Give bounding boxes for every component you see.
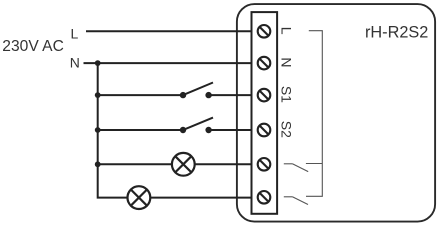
- relay contact K1: [284, 164, 308, 172]
- junction node S1: [95, 92, 101, 98]
- svg-text:N: N: [278, 57, 294, 67]
- wire S1 right segment: [209, 94, 259, 96]
- svg-text:N: N: [70, 54, 80, 70]
- svg-text:L: L: [71, 26, 79, 42]
- wire bus vertical N: [98, 63, 259, 198]
- terminal screw out2: [258, 191, 271, 204]
- svg-text:L: L: [278, 27, 294, 35]
- svg-text:S2: S2: [278, 121, 294, 138]
- wire lamp1: [98, 163, 259, 165]
- wire S1 left segment: [98, 94, 183, 96]
- terminal block: [252, 12, 278, 214]
- svg-text:230V AC: 230V AC: [2, 38, 64, 55]
- terminal screw S2: [258, 124, 271, 137]
- lamp E2: [127, 186, 150, 209]
- device body rH-R2S2: [237, 4, 435, 222]
- terminal screw out1: [258, 158, 271, 171]
- junction node N: [95, 60, 101, 66]
- relay contact K2: [284, 197, 308, 205]
- wire N: [84, 62, 260, 64]
- terminal screw L: [258, 25, 271, 38]
- junction node S2: [95, 127, 101, 133]
- switch S1: [180, 83, 213, 99]
- junction node lamp1: [95, 161, 101, 167]
- svg-text:S1: S1: [278, 86, 294, 103]
- svg-text:rH-R2S2: rH-R2S2: [365, 24, 428, 42]
- wire S2 left segment: [98, 129, 183, 131]
- wire S2 right segment: [209, 129, 259, 131]
- internal relay stub contact 1: [306, 163, 322, 165]
- terminal screw S1: [258, 89, 271, 102]
- lamp E1: [172, 153, 195, 176]
- internal relay common line from L: [306, 31, 322, 197]
- switch S2: [180, 118, 213, 134]
- wire L: [86, 30, 259, 32]
- terminal screw N: [258, 57, 271, 70]
